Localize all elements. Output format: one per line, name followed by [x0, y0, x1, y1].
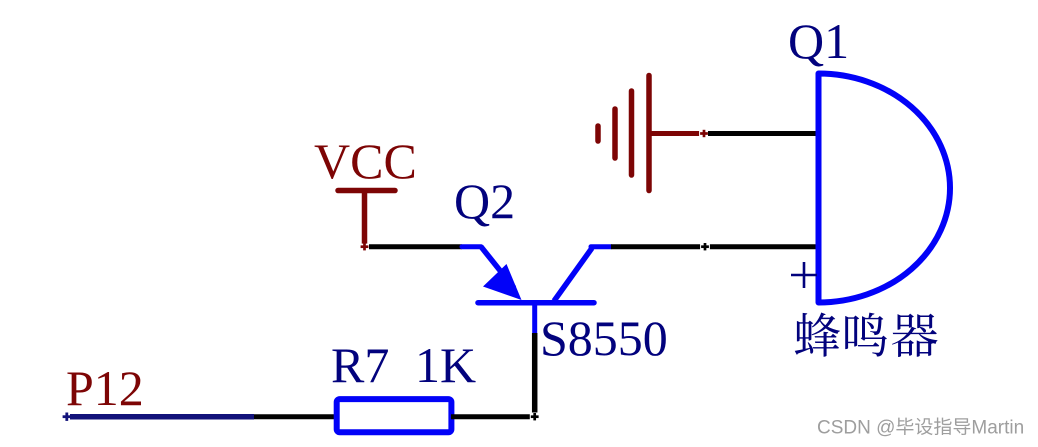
label Q2: [454, 173, 515, 229]
label S8550: [540, 310, 668, 366]
svg-text:S8550: S8550: [540, 310, 668, 366]
junction VCC-wire: [360, 243, 370, 250]
buzzer Q1: [819, 74, 951, 303]
label P12: [66, 360, 144, 416]
wire VCC to Q2 emitter: [369, 244, 462, 249]
ground (earth) symbol: [598, 76, 700, 191]
transistor Q2 (S8550 PNP): [462, 247, 611, 333]
svg-text:CSDN @: CSDN @: [817, 418, 895, 439]
label Q1: [788, 13, 849, 69]
svg-text:VCC: VCC: [314, 133, 417, 189]
label 1K: [415, 337, 476, 393]
net P12 wire (navy): [63, 413, 254, 421]
svg-text:1K: 1K: [415, 337, 476, 393]
wire ground to buzzer: [708, 131, 816, 136]
svg-text:R7: R7: [331, 337, 389, 393]
junction corner under Q2 base: [530, 413, 540, 420]
svg-text:P12: P12: [66, 360, 144, 416]
svg-text:Q2: Q2: [454, 173, 515, 229]
label 蜂鸣器: [795, 312, 938, 356]
wire P12 net to resistor: [254, 414, 337, 419]
wire resistor to corner: [451, 414, 531, 419]
svg-text:Q1: Q1: [788, 13, 849, 69]
resistor R7 1K: [337, 399, 452, 432]
wire Q2 collector to buzzer: [611, 244, 816, 249]
junction on collector wire: [700, 243, 710, 250]
watermark CSDN: [817, 418, 1024, 439]
label R7: [331, 337, 389, 393]
wire Q2 base down to corner: [532, 333, 538, 413]
power VCC: [314, 133, 417, 244]
junction ground-wire: [699, 130, 709, 137]
svg-text:Martin: Martin: [971, 418, 1024, 439]
plus polarity mark: [791, 262, 817, 288]
